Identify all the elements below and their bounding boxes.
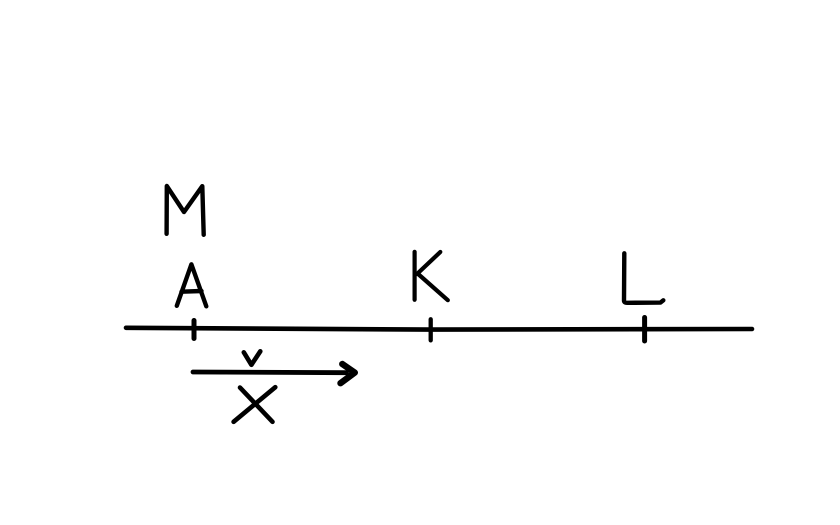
label v (velocity) — [244, 351, 260, 365]
label M (mass above A) — [167, 186, 204, 235]
tick mark at point A — [192, 321, 197, 339]
velocity arrow shaft — [193, 370, 347, 376]
label x (distance) — [240, 388, 273, 422]
label L — [624, 253, 663, 302]
label K — [413, 252, 417, 300]
main horizontal line — [126, 328, 752, 330]
tick mark at point K — [429, 319, 433, 340]
label A — [177, 264, 207, 306]
velocity arrow head — [341, 364, 355, 383]
tick mark at point L — [642, 318, 647, 342]
